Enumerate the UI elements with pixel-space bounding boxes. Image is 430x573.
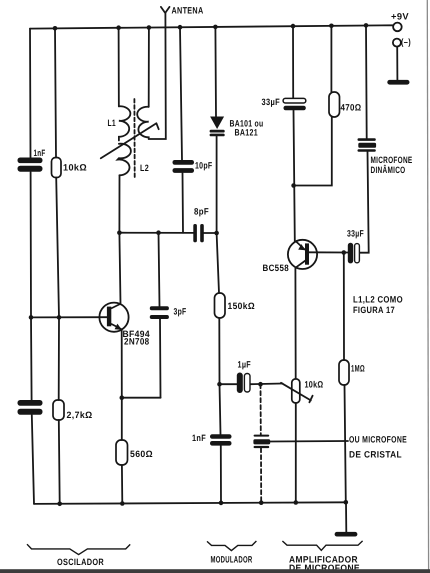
wire negative terminal stub — [396, 47, 398, 80]
transistor Q1 BF494 — [99, 303, 128, 332]
wire oscillator output node y233 — [119, 232, 193, 234]
page bottom bar — [0, 569, 430, 573]
wire 1M column upper — [343, 253, 345, 361]
wire 150k to 1uF node — [218, 318, 220, 384]
coil core dashed line — [133, 99, 135, 177]
wire column B middle — [56, 178, 59, 318]
wire 3pF upper column — [159, 233, 160, 307]
wire left column A lower — [30, 317, 33, 400]
svg-text:FIGURA 17: FIGURA 17 — [353, 305, 395, 315]
capacitor 1nF modulator plates — [210, 434, 232, 439]
wire left column A middle — [30, 172, 32, 317]
wire diode to node — [216, 136, 218, 233]
svg-text:+9V: +9V — [391, 12, 409, 22]
inductor L1 — [119, 106, 131, 140]
svg-text:1µF: 1µF — [238, 360, 252, 370]
wire coil bottom to node — [118, 175, 120, 232]
wire emitter to 560R — [121, 398, 123, 440]
wire node to 150k — [217, 233, 219, 293]
wire BF494 base wire — [31, 316, 107, 318]
wire BC558 base to 33uF — [309, 251, 348, 253]
section brace oscilador — [27, 544, 130, 554]
inductor L2 — [118, 144, 131, 176]
resistor R 470 — [329, 92, 340, 117]
transistor Q2 BC558 — [288, 240, 317, 269]
svg-text:10pF: 10pF — [195, 161, 213, 171]
svg-text:2,7kΩ: 2,7kΩ — [67, 410, 93, 420]
wire 560R to bottom rail — [121, 465, 123, 504]
svg-text:(–): (–) — [401, 37, 411, 47]
svg-text:BA121: BA121 — [235, 128, 259, 138]
wire column B bottom — [58, 420, 61, 504]
svg-text:L1: L1 — [108, 118, 117, 128]
capacitor 3pF plates — [150, 306, 169, 310]
wire 1uF to pot — [250, 383, 283, 386]
battery terminal negative — [393, 39, 401, 47]
wire 470R top — [330, 26, 332, 92]
ground bar bottom — [335, 532, 358, 537]
wire ground stub — [345, 502, 347, 532]
wire BC558 collector to pot — [294, 268, 296, 379]
wire coil to antenna — [149, 13, 166, 139]
microphone dynamic symbol — [358, 138, 377, 152]
wire 10pF column upper — [180, 27, 182, 160]
svg-text:OU MICROFONE: OU MICROFONE — [349, 434, 407, 444]
wire 1uF branch left — [220, 383, 237, 385]
capacitor 1nF oscillator plates — [18, 158, 43, 164]
capacitor 10pF plates — [173, 160, 195, 165]
svg-text:1nF: 1nF — [192, 433, 206, 443]
resistor R 10k oscillator — [52, 158, 62, 178]
svg-text:10kΩ: 10kΩ — [63, 163, 87, 173]
svg-text:33µF: 33µF — [262, 97, 281, 107]
svg-text:DINÂMICO: DINÂMICO — [371, 164, 406, 175]
wire top supply rail — [30, 25, 393, 28]
svg-text:MODULADOR: MODULADOR — [211, 554, 253, 564]
wire emitter to 3pF — [122, 397, 161, 399]
wire column B upper (10k) — [55, 28, 56, 157]
svg-text:2N708: 2N708 — [124, 337, 150, 347]
svg-text:MICROFONE: MICROFONE — [371, 155, 413, 165]
wire 10pF column lower — [182, 173, 185, 233]
potentiometer wiper arrow — [281, 383, 313, 403]
inductor L1 antenna winding — [137, 107, 148, 139]
coil tuning arrow — [101, 123, 159, 158]
svg-text:1nF: 1nF — [34, 148, 46, 158]
wire 1M column lower — [345, 385, 346, 502]
wire left column A bottom to corner — [32, 415, 34, 504]
wire left column A upper — [29, 29, 32, 158]
crystal mic dashed lead lower — [260, 448, 262, 503]
wire 470R elbow — [294, 117, 332, 186]
svg-text:10kΩ: 10kΩ — [305, 380, 324, 390]
wire diode column top — [214, 27, 217, 117]
section brace modulador — [207, 541, 256, 551]
crystal mic dashed lead upper — [260, 384, 262, 434]
resistor R 150k — [215, 293, 226, 318]
svg-text:470Ω: 470Ω — [341, 103, 362, 113]
ground bar top right — [387, 80, 409, 85]
wire coil left column top — [118, 28, 120, 106]
wire crystal mic to label — [270, 440, 348, 443]
svg-text:L2: L2 — [140, 163, 149, 173]
resistor R 560 — [116, 440, 128, 465]
capacitor 33uF electrolytic output — [348, 243, 360, 264]
svg-text:DE CRISTAL: DE CRISTAL — [349, 449, 402, 459]
wire bottom ground rail — [34, 502, 346, 504]
microphone crystal symbol — [253, 435, 270, 449]
wire 1uF node to 1nF cap — [220, 384, 221, 434]
capacitor 8pF plates — [193, 224, 197, 242]
capacitor 1nF oscillator lower plates — [18, 400, 43, 406]
wire column B lower (2.7k) — [58, 317, 60, 400]
wire BF494 emitter lead — [121, 329, 123, 397]
diode BA101 varicap — [210, 117, 225, 137]
wire mic to top rail — [365, 26, 368, 139]
svg-text:560Ω: 560Ω — [130, 449, 153, 459]
svg-text:3pF: 3pF — [174, 306, 187, 316]
svg-text:150kΩ: 150kΩ — [228, 301, 256, 311]
page right edge line — [427, 0, 428, 573]
svg-text:8pF: 8pF — [194, 207, 209, 217]
wire 1nF to bottom rail — [220, 446, 222, 503]
capacitor 1uF electrolytic — [237, 373, 250, 394]
antenna symbol — [161, 7, 170, 13]
svg-text:ANTENA: ANTENA — [172, 5, 204, 15]
wire BF494 collector — [119, 233, 120, 304]
resistor R 2.7k — [53, 400, 64, 420]
svg-text:BC558: BC558 — [263, 263, 290, 273]
wire 3pF lower column — [159, 319, 162, 398]
wire coil right column top — [148, 28, 150, 107]
wire 33uF to BC558 — [294, 110, 295, 241]
svg-text:L1,L2 COMO: L1,L2 COMO — [353, 295, 403, 305]
capacitor 33uF electrolytic top — [283, 98, 306, 110]
svg-text:33µF: 33µF — [347, 229, 364, 239]
section brace amplificador — [282, 541, 362, 550]
wire BC558 emitter column top — [292, 26, 294, 99]
svg-text:1MΩ: 1MΩ — [351, 364, 365, 374]
wire 33uF to mic column — [359, 152, 368, 253]
svg-text:OSCILADOR: OSCILADOR — [57, 557, 104, 567]
potentiometer body 10k — [292, 379, 300, 403]
wire 8pF to diode column — [204, 232, 217, 234]
battery terminal +9V — [393, 23, 402, 32]
resistor R 1M — [339, 360, 349, 385]
wire pot to bottom rail — [295, 403, 297, 503]
